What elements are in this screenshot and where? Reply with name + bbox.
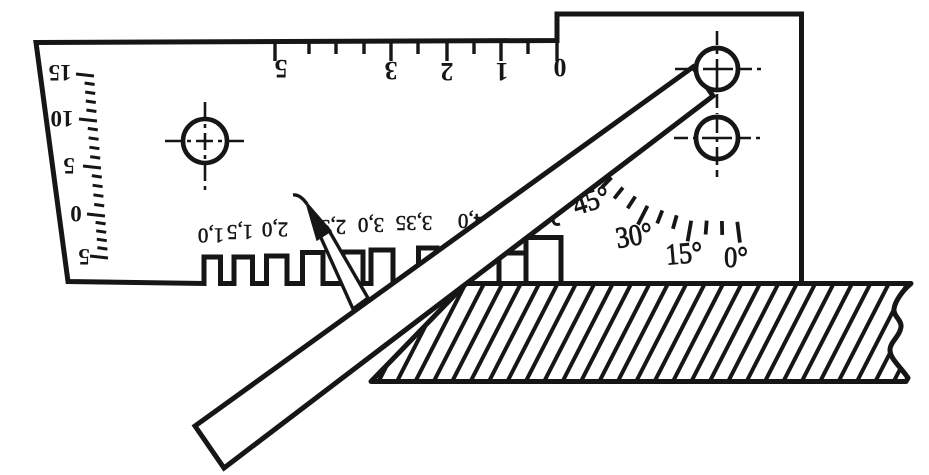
svg-text:2: 2 <box>441 57 454 86</box>
svg-text:15°: 15° <box>664 236 704 272</box>
top ruler labels <box>275 53 567 86</box>
svg-text:3,0: 3,0 <box>358 213 384 237</box>
svg-text:0: 0 <box>70 201 82 226</box>
svg-text:3,35: 3,35 <box>396 211 433 235</box>
svg-text:1: 1 <box>496 57 509 86</box>
lower hole center marks <box>674 119 762 177</box>
svg-text:0°: 0° <box>724 242 748 275</box>
svg-text:5: 5 <box>63 153 75 178</box>
svg-text:10: 10 <box>51 106 74 131</box>
left scale labels <box>49 60 90 269</box>
top ruler ticks <box>275 43 557 61</box>
svg-text:15: 15 <box>49 60 72 85</box>
svg-text:3: 3 <box>385 56 398 85</box>
small partial glyph near arm edge <box>553 211 561 225</box>
svg-text:5: 5 <box>275 54 288 83</box>
svg-text:1,0: 1,0 <box>198 223 224 247</box>
needle black tip <box>306 202 331 240</box>
svg-text:1,5: 1,5 <box>227 220 253 244</box>
pivot hole center marks <box>675 31 763 114</box>
svg-text:0: 0 <box>554 53 567 82</box>
left vertical scale ticks <box>76 74 108 258</box>
svg-text:30°: 30° <box>613 217 655 256</box>
gauge body outline with comb slots <box>36 14 802 284</box>
needle tip barb <box>293 195 307 204</box>
comb slot value labels <box>198 209 484 248</box>
lower hole <box>696 117 738 159</box>
pivot hole (top) <box>696 48 738 90</box>
pointer needle shaft <box>313 220 368 309</box>
pivoting arm <box>195 67 713 468</box>
svg-text:2,0: 2,0 <box>262 217 288 241</box>
slot separator line <box>524 238 528 284</box>
angle scale tick fan <box>602 178 740 243</box>
angle scale labels <box>569 180 748 275</box>
workpiece plate (hatched bar) <box>320 277 929 388</box>
svg-text:5: 5 <box>78 244 90 269</box>
left hole with center marks <box>183 119 227 163</box>
